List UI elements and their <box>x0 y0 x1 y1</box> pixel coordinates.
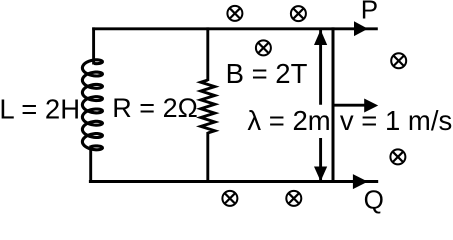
dimension arrowhead down <box>314 167 327 182</box>
conductor rod PQ <box>332 27 335 183</box>
arrowhead P current direction <box>354 21 368 36</box>
svg-text:L = 2H: L = 2H <box>0 93 80 124</box>
flux symbol 4 right upper <box>391 53 406 68</box>
svg-text:λ = 2m: λ = 2m <box>247 105 330 136</box>
wire left branch top segment <box>92 27 95 64</box>
velocity arrow shaft <box>334 104 366 107</box>
flux symbol 3 below top rail <box>256 40 271 55</box>
arrowhead Q current direction <box>353 174 368 189</box>
flux symbol 5 right lower <box>390 149 405 164</box>
wire resistor branch top segment <box>206 27 209 81</box>
svg-text:v = 1 m/s: v = 1 m/s <box>340 105 452 136</box>
svg-text:R = 2Ω: R = 2Ω <box>112 93 197 123</box>
wire resistor branch bottom segment <box>206 132 209 183</box>
flux symbol 6 bottom-left <box>222 191 237 206</box>
wire bottom rail Q <box>89 180 378 183</box>
velocity arrowhead <box>364 99 378 113</box>
dimension line upper segment <box>319 30 322 105</box>
svg-text:P: P <box>361 0 378 25</box>
inductor L1 coil <box>82 60 102 150</box>
svg-text:B = 2T: B = 2T <box>226 58 308 89</box>
flux symbol 1 top-left <box>227 6 242 21</box>
wire top rail P <box>92 27 378 30</box>
dimension line lower segment <box>319 138 322 181</box>
dimension arrowhead up <box>314 30 327 45</box>
flux symbol 2 top-right <box>291 6 306 21</box>
flux symbol 7 bottom-right <box>286 191 301 206</box>
wire left branch bottom segment <box>89 146 92 183</box>
svg-text:Q: Q <box>364 185 384 215</box>
resistor R1 zigzag <box>201 80 215 133</box>
